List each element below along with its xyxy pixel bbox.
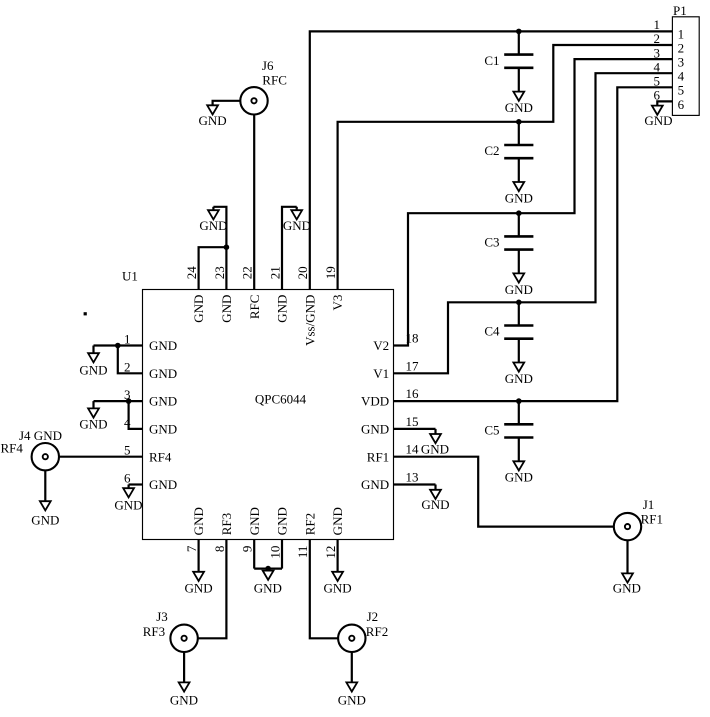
ground symbol for U1 pins 3/4 — [92, 401, 94, 408]
stray dot mark — [84, 312, 87, 315]
svg-text:GND: GND — [199, 218, 227, 233]
svg-text:23: 23 — [212, 266, 227, 279]
connector J6 coax outer — [240, 87, 267, 114]
ground symbol for J1 shield — [622, 573, 633, 582]
svg-text:GND: GND — [114, 497, 142, 512]
wire net RF3: U1 pin 8 down and left to connector J3 — [198, 540, 227, 639]
junction node pins 1/2 — [115, 343, 121, 349]
svg-text:16: 16 — [406, 386, 420, 401]
wire net VSSGND: U1 pin 20 Vss/GND up and right to P1 pin 1 — [310, 31, 673, 289]
svg-text:5: 5 — [678, 83, 685, 98]
svg-text:14: 14 — [406, 442, 420, 457]
svg-text:GND: GND — [79, 416, 107, 431]
ground symbol for U1 pin 15 — [434, 429, 436, 434]
svg-text:RF2: RF2 — [366, 624, 388, 639]
svg-text:RFC: RFC — [247, 295, 262, 320]
wire net V3: U1 pin 19 V3 up, right, up to P1 pin 2 — [338, 45, 673, 290]
ground symbol for C1 — [513, 92, 524, 101]
svg-text:GND: GND — [505, 470, 533, 485]
connector J4 coax outer — [32, 443, 59, 470]
connector J6 center pin — [251, 98, 256, 103]
wire J6 shield to ground — [213, 101, 241, 106]
ground symbol for J6 shield — [207, 105, 218, 114]
svg-text:GND: GND — [149, 477, 177, 492]
ground symbol for C3 — [513, 273, 524, 282]
svg-text:GND: GND — [505, 100, 533, 115]
junction node pins 3/4 — [126, 398, 132, 404]
svg-text:V2: V2 — [373, 338, 389, 353]
svg-text:GND: GND — [361, 422, 389, 437]
connector J3 coax outer — [170, 625, 197, 652]
junction node C3 top — [516, 210, 522, 216]
svg-text:RF3: RF3 — [143, 624, 165, 639]
ground symbol for U1 pins 1/2 — [92, 346, 94, 354]
connector J3 center pin — [182, 636, 187, 641]
ground symbol for U1 pin 21 — [296, 207, 298, 210]
wire J4 shield to ground — [44, 470, 46, 501]
wire U1 pin 3 left with ground tap — [94, 400, 143, 402]
svg-text:J4 GND: J4 GND — [19, 428, 62, 443]
svg-text:GND: GND — [170, 693, 198, 708]
wire net RF4: U1 pin 5 to connector J4 — [59, 456, 143, 458]
svg-text:3: 3 — [124, 387, 131, 402]
capacitor C4 — [518, 302, 520, 325]
wire U1 pin 6 ground hook — [129, 483, 143, 485]
svg-text:9: 9 — [240, 546, 255, 553]
op-amp-style IC body U1 QPC6044 — [143, 290, 394, 540]
ground symbol for J4 shield — [40, 501, 51, 510]
svg-text:J1: J1 — [643, 497, 655, 512]
ground symbol for C5 — [513, 461, 524, 470]
svg-text:GND: GND — [505, 190, 533, 205]
svg-text:P1: P1 — [673, 3, 687, 18]
ground symbol for U1 pin 6 — [128, 485, 130, 489]
svg-text:13: 13 — [406, 470, 419, 485]
junction node pins 23/24 — [224, 244, 230, 250]
connector J1 coax outer — [614, 513, 641, 540]
svg-text:24: 24 — [184, 266, 199, 280]
svg-text:Vss/GND: Vss/GND — [302, 295, 317, 346]
svg-text:15: 15 — [406, 414, 419, 429]
svg-text:11: 11 — [295, 546, 310, 559]
wire J2 shield to ground — [351, 652, 353, 682]
ground symbol for U1 pin 13 — [434, 485, 436, 490]
svg-text:GND: GND — [275, 507, 290, 535]
wire U1 pin 15 ground hook — [394, 428, 436, 430]
svg-text:C3: C3 — [484, 235, 499, 250]
connector J2 coax outer — [338, 625, 365, 652]
svg-text:3: 3 — [654, 45, 661, 60]
wire U1 pin 10 down — [281, 540, 283, 569]
junction node pins 9/10 — [265, 566, 271, 572]
svg-text:2: 2 — [654, 31, 661, 46]
svg-text:GND: GND — [644, 113, 672, 128]
ground symbol for U1 pins 9/10 — [267, 569, 269, 571]
connector J4 center pin — [43, 454, 48, 459]
svg-text:GND: GND — [191, 295, 206, 323]
svg-text:22: 22 — [240, 266, 255, 279]
svg-text:V3: V3 — [330, 295, 345, 311]
junction node C4 top — [516, 300, 522, 306]
svg-text:2: 2 — [678, 40, 685, 55]
svg-text:RF4: RF4 — [149, 449, 172, 464]
svg-text:GND: GND — [361, 477, 389, 492]
svg-text:GND: GND — [338, 693, 366, 708]
svg-text:GND: GND — [505, 371, 533, 386]
svg-text:GND: GND — [421, 497, 449, 512]
wire net V1: U1 pin 17 V1 right, up, right, up to P1 pin 4 — [394, 73, 673, 373]
svg-text:RF2: RF2 — [302, 513, 317, 535]
ground symbol for U1 pins 23/24 — [212, 207, 214, 210]
svg-text:8: 8 — [212, 546, 227, 553]
svg-text:GND: GND — [199, 113, 227, 128]
svg-text:GND: GND — [613, 581, 641, 596]
svg-text:C4: C4 — [484, 324, 500, 339]
wire net RF2: U1 pin 11 down and right to connector J2 — [310, 540, 338, 639]
wire P1 pin 6 to ground — [657, 101, 672, 105]
svg-text:GND: GND — [275, 295, 290, 323]
ground symbol for J2 shield — [346, 682, 357, 691]
svg-text:GND: GND — [247, 507, 262, 535]
wire U1 pin 1 left with ground tap — [94, 344, 143, 346]
svg-text:QPC6044: QPC6044 — [255, 391, 307, 406]
ground symbol for P1 pin 6 — [652, 106, 663, 115]
svg-text:GND: GND — [283, 218, 311, 233]
svg-text:1: 1 — [654, 17, 661, 32]
svg-text:7: 7 — [184, 545, 199, 552]
svg-text:1: 1 — [678, 26, 685, 41]
ground symbol for C2 — [513, 182, 524, 191]
wire J1 shield to ground — [626, 540, 628, 573]
wire J3 shield to ground — [183, 652, 185, 682]
svg-text:RF1: RF1 — [641, 512, 663, 527]
connector J1 center pin — [625, 524, 630, 529]
svg-text:VDD: VDD — [361, 394, 389, 409]
svg-text:3: 3 — [678, 55, 685, 70]
wire U1 pin 7 to ground — [198, 540, 200, 572]
svg-text:19: 19 — [323, 266, 338, 279]
junction node C2 top — [516, 119, 522, 125]
capacitor C3 — [518, 213, 520, 236]
svg-text:RF3: RF3 — [219, 513, 234, 535]
ground symbol for C4 — [513, 363, 524, 372]
svg-text:GND: GND — [149, 394, 177, 409]
svg-text:6: 6 — [678, 97, 685, 112]
svg-text:2: 2 — [124, 359, 131, 374]
svg-text:12: 12 — [323, 546, 338, 559]
svg-text:GND: GND — [149, 366, 177, 381]
wire net V2: U1 pin 18 V2 right, up, right, up to P1 pin 3 — [394, 59, 673, 345]
svg-text:GND: GND — [421, 441, 449, 456]
svg-text:J6: J6 — [262, 58, 274, 73]
wire U1 pin 21 up to ground hook — [282, 207, 297, 290]
svg-text:GND: GND — [31, 513, 59, 528]
wire net RF1: U1 pin 14 right, down, right to connector J1 — [394, 457, 614, 527]
svg-text:GND: GND — [185, 580, 213, 595]
wire joining U1 pins 9 and 10 — [254, 567, 282, 569]
svg-text:GND: GND — [505, 282, 533, 297]
svg-text:C1: C1 — [484, 53, 499, 68]
svg-text:GND: GND — [254, 580, 282, 595]
svg-text:4: 4 — [124, 415, 131, 430]
svg-text:V1: V1 — [373, 366, 389, 381]
capacitor C2 — [518, 122, 520, 145]
capacitor C1 — [518, 31, 520, 54]
svg-text:RF1: RF1 — [367, 449, 389, 464]
wire U1 pin 9 down — [253, 540, 255, 569]
ground symbol for J3 shield — [179, 682, 190, 691]
svg-text:21: 21 — [267, 266, 282, 279]
capacitor C5 — [518, 401, 520, 424]
svg-text:RF4: RF4 — [1, 440, 24, 455]
connector P1 body — [672, 17, 699, 116]
svg-text:18: 18 — [406, 331, 419, 346]
svg-text:10: 10 — [267, 546, 282, 559]
svg-text:4: 4 — [678, 69, 685, 84]
wire U1 pin 13 ground hook — [394, 483, 436, 485]
svg-text:U1: U1 — [122, 269, 138, 284]
svg-text:6: 6 — [124, 471, 131, 486]
wire U1 pin 22 RFC up to connector J6 — [253, 114, 255, 290]
junction node C1 top — [516, 29, 522, 35]
wire U1 pin 12 to ground — [337, 540, 339, 572]
svg-text:C2: C2 — [484, 143, 499, 158]
connector J2 center pin — [349, 636, 354, 641]
svg-text:J2: J2 — [367, 609, 379, 624]
svg-text:J3: J3 — [156, 609, 168, 624]
svg-text:GND: GND — [219, 295, 234, 323]
svg-text:GND: GND — [149, 422, 177, 437]
svg-text:RFC: RFC — [262, 72, 287, 87]
svg-text:GND: GND — [330, 507, 345, 535]
wire net VDD: U1 pin 16 VDD right and up to P1 pin 5 — [394, 87, 673, 401]
svg-text:GND: GND — [79, 363, 107, 378]
wire U1 pin 1 to pin 2 — [118, 346, 143, 374]
junction node C5 top — [516, 398, 522, 404]
svg-text:5: 5 — [654, 74, 661, 89]
svg-text:C5: C5 — [484, 423, 499, 438]
svg-text:GND: GND — [324, 580, 352, 595]
svg-text:20: 20 — [295, 266, 310, 279]
svg-text:5: 5 — [124, 443, 131, 458]
wire U1 pin 3 to pin 4 — [129, 401, 143, 429]
wire U1 pin 24 to pin 23 junction — [199, 247, 227, 289]
svg-text:GND: GND — [191, 507, 206, 535]
svg-text:17: 17 — [406, 358, 420, 373]
svg-text:GND: GND — [149, 338, 177, 353]
wire U1 pin 23 up to ground hook — [213, 207, 226, 290]
svg-text:1: 1 — [124, 332, 131, 347]
svg-text:4: 4 — [654, 59, 661, 74]
